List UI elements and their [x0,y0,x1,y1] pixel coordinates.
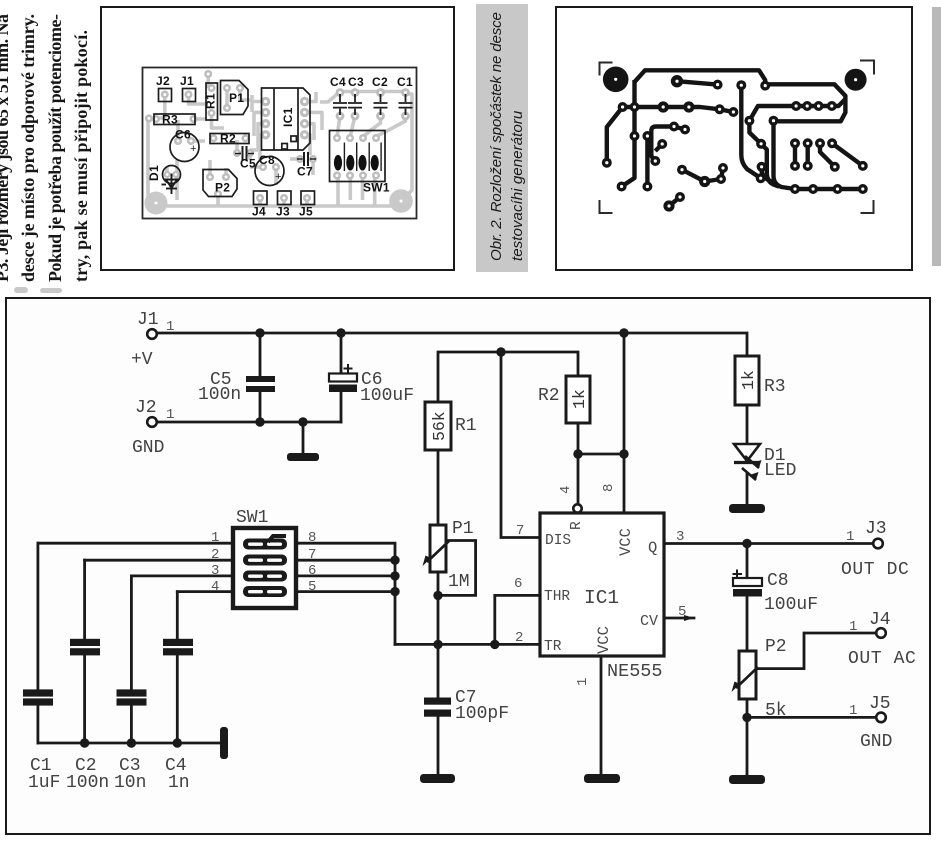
svg-text:1: 1 [575,678,591,686]
svg-text:Q: Q [648,539,657,557]
svg-text:J3: J3 [276,205,290,219]
svg-text:7: 7 [308,547,316,563]
svg-text:5: 5 [678,604,686,620]
svg-text:J5: J5 [869,694,891,714]
svg-text:2: 2 [515,630,523,646]
svg-text:C6: C6 [175,128,191,142]
svg-text:C1: C1 [397,75,413,89]
svg-text:NE555: NE555 [607,661,663,682]
svg-text:J4: J4 [869,610,891,630]
svg-text:1n: 1n [168,773,190,793]
svg-text:Obr. 2. Rozložení spočástek ne: Obr. 2. Rozložení spočástek ne desce [488,12,505,261]
svg-text:1M: 1M [448,572,470,592]
svg-text:4: 4 [211,579,219,595]
svg-text:OUT DC: OUT DC [841,560,909,580]
svg-text:100n: 100n [66,773,109,793]
svg-text:CV: CV [640,613,658,630]
svg-text:R: R [569,521,585,530]
svg-text:1: 1 [849,703,857,719]
svg-text:100pF: 100pF [455,704,509,724]
svg-text:Pokud je potřeba použít potenc: Pokud je potřeba použít potenciome- [45,14,65,282]
svg-text:100uF: 100uF [360,386,414,406]
svg-text:J2: J2 [135,398,157,418]
svg-text:LED: LED [764,461,796,481]
svg-text:C4: C4 [330,75,346,89]
svg-text:1: 1 [846,529,854,545]
svg-text:100n: 100n [198,385,241,405]
svg-text:C5: C5 [240,157,256,171]
svg-text:J4: J4 [252,205,266,219]
svg-text:8: 8 [308,530,316,546]
svg-text:C3: C3 [348,75,364,89]
svg-text:1: 1 [849,619,857,635]
svg-text:1: 1 [211,530,219,546]
svg-text:R2: R2 [538,386,560,406]
svg-text:1k: 1k [570,389,589,409]
svg-text:R3: R3 [764,377,786,397]
svg-text:C7: C7 [297,165,313,179]
svg-text:+: + [275,172,282,184]
svg-text:2: 2 [211,547,219,563]
svg-text:10n: 10n [114,773,146,793]
svg-text:C2: C2 [372,75,388,89]
svg-text:P3. Její rozměry jsou 65 x 51: P3. Její rozměry jsou 65 x 51 mm. Na [0,14,12,282]
svg-text:DIS: DIS [545,533,571,549]
svg-text:IC1: IC1 [584,587,619,609]
svg-text:6: 6 [514,576,522,592]
svg-text:P2: P2 [765,637,787,657]
svg-text:7: 7 [516,523,524,539]
svg-text:56k: 56k [430,411,449,441]
svg-text:OUT AC: OUT AC [848,649,916,669]
svg-text:1k: 1k [739,370,758,390]
svg-text:3: 3 [676,529,684,545]
svg-text:TR: TR [544,639,562,655]
svg-text:J5: J5 [299,205,313,219]
svg-text:5k: 5k [765,701,787,721]
svg-text:D1: D1 [147,165,161,181]
svg-text:1: 1 [166,319,174,335]
svg-text:IC1: IC1 [281,107,295,127]
svg-text:1uF: 1uF [28,773,60,793]
svg-text:P1: P1 [229,91,244,105]
svg-text:R1: R1 [204,93,218,109]
svg-text:P2: P2 [215,181,230,195]
svg-text:J1: J1 [180,74,194,88]
svg-text:R3: R3 [162,113,178,127]
svg-text:testovacíhi generátoru: testovacíhi generátoru [509,110,526,261]
svg-text:C8: C8 [259,153,275,167]
svg-text:GND: GND [132,438,164,458]
svg-text:100uF: 100uF [764,595,818,615]
svg-text:VCC: VCC [617,528,635,556]
svg-text:C8: C8 [767,571,789,591]
svg-text:R2: R2 [220,132,236,146]
svg-text:R1: R1 [455,416,477,436]
svg-text:1: 1 [166,407,174,423]
svg-text:THR: THR [544,589,570,605]
svg-text:+V: +V [131,350,153,370]
svg-text:desce je místo pro odporové tr: desce je místo pro odporové trimry. [18,14,38,282]
svg-text:GND: GND [860,732,892,752]
svg-text:+: + [190,144,197,156]
svg-text:6: 6 [308,563,316,579]
svg-text:try, pak se musí připojit poko: try, pak se musí připojit pokocí. [71,30,91,282]
svg-text:J1: J1 [137,310,159,330]
svg-text:3: 3 [211,563,219,579]
svg-text:SW1: SW1 [236,508,268,528]
svg-text:SW1: SW1 [363,181,390,195]
svg-text:5: 5 [308,579,316,595]
svg-text:8: 8 [601,484,617,492]
svg-text:J2: J2 [156,74,170,88]
svg-text:P1: P1 [452,519,474,539]
svg-text:4: 4 [558,486,574,494]
svg-text:J3: J3 [865,519,887,539]
svg-text:VCC: VCC [595,626,613,654]
